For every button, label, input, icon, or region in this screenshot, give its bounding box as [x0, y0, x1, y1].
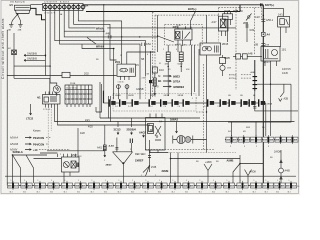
sense rail x206	[205, 15, 208, 49]
rail takeoff ticks	[261, 3, 262, 6]
wire ECU pin to LTC2 label	[26, 104, 34, 121]
starter component 25/2	[57, 154, 79, 183]
sensor chain 13/8	[220, 55, 232, 76]
dashed box outer	[153, 8, 262, 97]
misc pin number labels	[60, 2, 273, 177]
inline connector row: c13	[258, 99, 273, 106]
splice square on sense wire	[142, 51, 153, 99]
wire from terminal 6 right at y27.9 long	[69, 11, 236, 28]
row bus wire	[102, 91, 104, 103]
nested corner wires	[96, 82, 111, 122]
page border frame	[1, 1, 299, 194]
power stage module 20/1	[115, 60, 139, 76]
harness label row 1	[10, 136, 51, 140]
rail inline connector 2B	[255, 43, 266, 46]
dashed compartment around coil area	[145, 64, 215, 150]
inline connector 4/5A on wire	[142, 43, 152, 46]
wires 13/1 pins down	[265, 61, 277, 84]
wires comp 14/1 pins down	[281, 27, 287, 47]
relay pins down	[178, 40, 183, 52]
component 14/1	[278, 13, 290, 27]
wire junction to ground 24/2	[11, 14, 17, 24]
feed wire y11.5 battery plus	[86, 5, 240, 12]
dotted wires from ECU down	[47, 108, 49, 150]
inline connector row: c2	[119, 99, 132, 106]
ignition coil 20/1	[146, 114, 166, 154]
row2 connector c	[250, 135, 261, 144]
splice funnel junction	[106, 138, 133, 184]
feed wire 4/28	[78, 128, 85, 157]
fuse 4/3A vertical	[165, 45, 171, 67]
bottom connectors	[7, 181, 18, 190]
paper grain overlay	[0, 0, 300, 195]
connector row 2 bus	[225, 139, 297, 141]
rail inline connector 14/2	[255, 15, 274, 22]
ground 24/2	[7, 25, 13, 32]
wire ECU pin right bus y121.5	[55, 108, 295, 122]
ignition switch symbol	[243, 14, 252, 26]
wire bus y118	[109, 117, 201, 119]
destination label 3C/13	[114, 122, 121, 135]
wire feed into ECU table	[14, 78, 50, 94]
injector row labels below	[115, 106, 180, 108]
ECU connector box 4/1	[37, 92, 60, 112]
inline connector row: c7	[183, 99, 208, 106]
spark terminal a	[117, 84, 121, 99]
terminal block 16/31	[223, 12, 233, 42]
junction 24/B left	[12, 150, 40, 183]
row2 connector d	[263, 135, 274, 144]
wire from terminal 1 down to pump branch	[44, 11, 46, 58]
row2 connector a	[226, 135, 237, 144]
wire battery to fuse strip (staircase)	[30, 8, 45, 19]
harness label row 3	[10, 148, 70, 152]
left rail B	[13, 33, 15, 78]
rotated margin note: circuit without anti-theft alarm	[1, 18, 5, 79]
component 13/1 with hatch and port	[261, 45, 287, 62]
dashed box relay compartment	[165, 25, 203, 46]
wire switch down	[246, 22, 255, 42]
inline connector row: c8	[207, 99, 220, 106]
inline connector row: c10	[229, 99, 241, 106]
knock sensor labels	[135, 153, 157, 169]
mid junction 32/2	[149, 153, 240, 184]
junction BAT plus	[188, 7, 197, 12]
main right rail x263	[262, 5, 264, 186]
wire x206 down	[206, 112, 208, 153]
spark terminal b	[125, 84, 129, 99]
wires above starter going right	[34, 155, 62, 159]
inline connector row: c1	[109, 99, 120, 106]
ladder wire down and bus y111	[253, 91, 298, 111]
fuse pair right	[233, 53, 262, 60]
labels near drops	[136, 58, 145, 91]
splice ladder 10/1B	[251, 60, 258, 91]
destination label 2DOB/4	[127, 118, 137, 135]
rail fuse A4	[262, 32, 271, 36]
component 2B/15	[200, 43, 229, 55]
wire junction to ground 24/6	[18, 14, 21, 24]
label row GN/SB-B 2	[24, 57, 45, 61]
header tiny note	[10, 1, 26, 4]
inline connector row: c9	[220, 99, 229, 106]
label MFI 6A upper	[96, 27, 108, 31]
row2 connector b	[238, 135, 249, 144]
resistor drop left of funnel	[97, 125, 106, 157]
fuel pump motor circle	[53, 86, 60, 96]
IAC valve 8/5	[173, 135, 207, 143]
ground 24/6	[18, 25, 23, 32]
dotted harness box	[113, 94, 196, 111]
V arrows right	[245, 170, 257, 184]
V arrows mid	[204, 161, 212, 183]
junction A/WB right	[227, 155, 264, 183]
arrow label row 2	[158, 80, 180, 84]
wire MFI 6A branch	[82, 44, 114, 99]
wire rail to fuel pump fuse y75.5	[7, 75, 62, 77]
wire c13 down to row2	[265, 103, 267, 136]
antenna rail A4/B	[274, 150, 290, 183]
inline connector row: c3	[132, 99, 149, 106]
power stage pins down	[118, 76, 130, 83]
wire from terminal 4 right at y44.1 then down	[60, 11, 141, 100]
ground bus y176	[5, 175, 296, 177]
inline connector row: c5	[160, 99, 172, 106]
dotted divider inside module box	[218, 15, 220, 42]
fuse strip 1/A	[43, 1, 89, 10]
module chain component 4/10	[152, 67, 164, 95]
ignition feed label row	[224, 10, 243, 13]
power stage wires top	[127, 52, 155, 64]
bottom row tiny labels	[10, 180, 291, 193]
wire ECU pin right bus y125	[58, 108, 151, 126]
wire from terminal 8 right then down	[78, 11, 121, 65]
strip terminal circles	[44, 4, 85, 14]
wire x149 down	[143, 140, 151, 176]
jumper diagonal	[87, 37, 96, 44]
wire 13/1 down to connector row2	[270, 84, 272, 136]
inline connector row: c6	[172, 99, 183, 106]
injector row labels above	[115, 95, 184, 97]
top feed from battery to strip	[30, 4, 42, 6]
inline connector row: c11	[241, 99, 249, 106]
harness label row 2	[10, 143, 48, 147]
inline connector row: c12	[249, 99, 259, 106]
wire from terminal 2 down to pump	[50, 11, 57, 86]
long verticals center module	[192, 45, 207, 112]
left rail A	[6, 30, 8, 186]
fuse 6/2B vertical	[178, 45, 184, 67]
row2 connector f	[287, 135, 298, 144]
far right rail	[228, 84, 291, 122]
auxiliary relay A17	[212, 16, 229, 36]
arrow label row 1	[158, 75, 180, 79]
wire battery to ground junction	[17, 14, 19, 16]
ECU pin table 21/4B	[65, 83, 92, 107]
top feed wire y4.8	[83, 4, 263, 6]
wire from terminal 5 right at y36.9 to module	[64, 11, 157, 37]
bottom bus	[7, 185, 296, 187]
destination label A4OZ	[139, 131, 146, 138]
wires from fuses down	[168, 67, 181, 97]
battery 1/1	[9, 3, 30, 14]
row2 labels above	[228, 131, 246, 133]
bus labels	[85, 119, 93, 129]
inline connector on rail B	[8, 48, 16, 55]
wire drops to row2	[232, 122, 257, 137]
branch to arrow A2B	[279, 84, 289, 101]
table cell hatching	[67, 90, 90, 103]
wire from terminal 7 right then down to ignition module	[74, 11, 117, 61]
relay 4/33	[173, 25, 193, 46]
inline connector row: c4	[149, 99, 161, 106]
label column 17/9	[282, 68, 291, 75]
ladder feed labels	[229, 74, 252, 80]
fuse 2/32 on wire	[62, 72, 117, 77]
wire comp 14/1 top feed	[263, 9, 283, 17]
left rail of module x157.6	[157, 15, 174, 52]
wire junction to relay coil	[191, 12, 196, 30]
arrow label row 3	[155, 85, 185, 89]
wire from terminal 3 right at y40.7 then down	[55, 11, 146, 77]
wire bus y84 to far right rail	[257, 83, 291, 85]
label row GN/SB-B 1	[24, 52, 46, 56]
inline connector A4B on feed	[106, 33, 141, 39]
row2 connector e	[275, 135, 286, 144]
wire t1 down to pump	[44, 55, 46, 75]
wire to IAC	[176, 122, 178, 134]
harness wires above starter	[40, 151, 105, 153]
branch rail B to t2	[14, 65, 50, 67]
branch wire x103.8 down from top feed	[103, 5, 105, 103]
